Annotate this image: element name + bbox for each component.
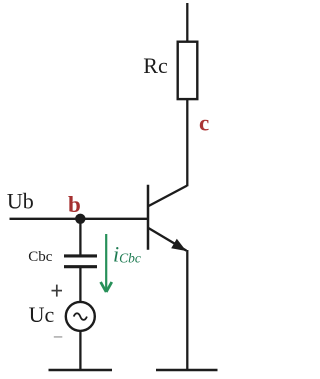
label +	[52, 285, 63, 297]
ground right	[156, 369, 218, 371]
capacitor Cbc	[64, 256, 97, 267]
wire: emitter to ground	[186, 250, 188, 370]
source Uc	[66, 302, 95, 331]
svg-text:Ub: Ub	[7, 189, 34, 214]
resistor Rc	[178, 42, 198, 99]
svg-text:Rc: Rc	[143, 53, 168, 78]
svg-text:b: b	[68, 192, 81, 217]
wire: resistor to collector	[186, 99, 188, 186]
wire: source to ground	[79, 331, 81, 370]
wire: collector supply top	[186, 3, 188, 42]
wire: base	[10, 218, 148, 220]
label minus	[54, 336, 63, 338]
transistor Q1	[148, 185, 187, 251]
ground left	[49, 369, 113, 371]
svg-text:Cbc: Cbc	[28, 249, 53, 265]
svg-text:iCbc: iCbc	[113, 242, 141, 267]
wire: node b to capacitor	[79, 219, 81, 255]
wire: capacitor to source	[79, 268, 81, 302]
svg-text:Uc: Uc	[29, 302, 55, 327]
svg-text:c: c	[199, 111, 209, 136]
current arrow iCbc	[101, 234, 112, 292]
node b dot	[75, 214, 85, 224]
